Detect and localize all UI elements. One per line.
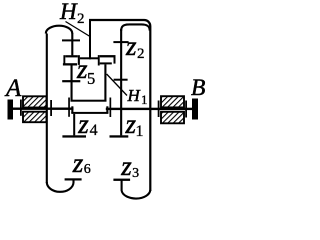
gear z5 tick [62, 80, 80, 82]
label H2 [60, 0, 77, 25]
gear mesh left: left flank [63, 55, 65, 65]
label z6 [73, 148, 84, 179]
tick on shaft A before bearing [20, 100, 22, 116]
gear mesh right: upper bar [100, 55, 114, 57]
gear z5 upper shaft [71, 33, 73, 55]
carrier H1 top bar [71, 100, 107, 102]
label z4 [78, 109, 89, 140]
gear z2 tick [113, 41, 128, 43]
shaft A end bar [8, 100, 14, 120]
gear mesh left: upper bar [65, 55, 78, 57]
gear mesh left: right flank [78, 55, 80, 65]
gear z4 shaft [73, 114, 75, 135]
bearing A lower block [23, 112, 47, 123]
gear z1 foot bar [110, 135, 129, 137]
carrier H2 bridge bar [80, 57, 99, 59]
gear z5 lower shaft [71, 65, 73, 101]
ring gear z6 drum bottom U [47, 180, 74, 192]
carrier H1 right vertical [104, 64, 106, 101]
sleeve bracket bar below axis [71, 112, 108, 114]
gear mesh left: lower bar [63, 63, 77, 65]
label B [191, 75, 205, 102]
ring gear z6 drum left wall [46, 34, 48, 184]
shaft B end bar [192, 99, 198, 120]
gear mesh right: lower bar [100, 62, 112, 64]
gear mesh right: left flank [98, 55, 100, 65]
leader line H1 [107, 74, 127, 96]
gear z2 dome arc [121, 24, 150, 31]
sleeve bracket left stub [71, 106, 73, 113]
tick on shaft B before bearing [158, 101, 160, 118]
carrier H2 top line and right drum wall [89, 20, 150, 191]
bearing B upper block [161, 96, 184, 107]
leader line H2 [66, 22, 91, 37]
bearing A upper block [23, 96, 47, 107]
ring gear z6 rim tick [65, 178, 82, 180]
carrier H1 hub tick right [110, 98, 112, 118]
bearing B lower block [161, 112, 184, 124]
ring gear z6 drum top arc [46, 26, 73, 34]
gear mesh right: right flank [114, 55, 116, 64]
label z1 [126, 109, 137, 140]
label z3 [121, 151, 132, 182]
label A [6, 75, 21, 103]
gear tick on z5 shaft top [62, 39, 80, 41]
gear z4 foot bar [62, 135, 86, 137]
shaft A axis line [13, 108, 74, 110]
carrier H2 column [89, 19, 91, 59]
ring gear z3 drum bottom U [122, 181, 151, 199]
tick on shaft A after drum wall [50, 100, 52, 116]
gear z2 shaft [120, 29, 122, 135]
tick on shaft B after bearing [185, 101, 187, 118]
label z2 [126, 31, 137, 62]
sleeve bracket right stub [106, 106, 108, 113]
gear tick on z2 shaft lower [114, 79, 128, 81]
label z5 [77, 54, 88, 85]
carrier H1 hub tick left [68, 98, 70, 117]
shaft B axis line [106, 108, 192, 110]
ring gear z3 rim tick [113, 179, 130, 181]
label H1 [128, 86, 140, 106]
